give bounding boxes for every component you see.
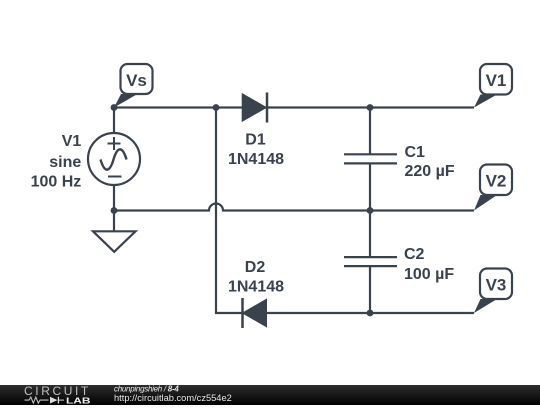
svg-text:1N4148: 1N4148 (228, 278, 284, 295)
svg-text:220 µF: 220 µF (405, 163, 455, 180)
svg-text:Vs: Vs (126, 71, 147, 90)
svg-text:sine: sine (49, 154, 81, 171)
svg-text:C1: C1 (405, 144, 426, 161)
svg-text:http://circuitlab.com/cz554e2: http://circuitlab.com/cz554e2 (114, 393, 232, 403)
svg-text:C2: C2 (404, 246, 425, 263)
svg-text:100 Hz: 100 Hz (31, 173, 82, 190)
svg-text:V2: V2 (486, 172, 507, 191)
svg-text:chunpingshieh / 8-4: chunpingshieh / 8-4 (114, 384, 179, 393)
svg-text:1N4148: 1N4148 (228, 151, 284, 168)
svg-text:100 µF: 100 µF (404, 266, 454, 283)
svg-text:V1: V1 (62, 133, 82, 150)
svg-text:D1: D1 (245, 131, 266, 148)
svg-text:LAB: LAB (66, 396, 91, 405)
svg-text:V3: V3 (486, 276, 507, 295)
svg-text:D2: D2 (245, 259, 266, 276)
svg-text:V1: V1 (486, 71, 507, 90)
